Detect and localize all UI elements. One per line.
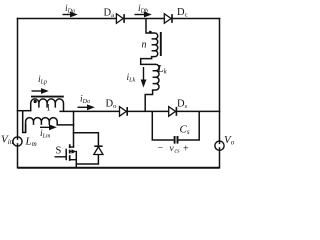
dot secondary polarity (149, 31, 152, 34)
svg-text:iLm: iLm (40, 129, 51, 140)
wire right rail upper (219, 19, 221, 142)
winding n (secondary) (141, 19, 159, 112)
wire primary left connector (18, 110, 31, 112)
wire bottom rail (18, 167, 220, 169)
drain stub (70, 146, 74, 148)
transistor S (MOSFET) (55, 144, 77, 161)
svg-text:iDo: iDo (80, 95, 90, 106)
wire drain vertical (73, 111, 75, 147)
gate lead (55, 156, 67, 158)
svg-text:iDa: iDa (65, 4, 75, 15)
svg-text:1: 1 (46, 103, 51, 113)
arrow iDb (135, 12, 152, 18)
arrow iLm (40, 124, 57, 130)
arrow iDo (78, 104, 95, 110)
svg-text:Dc: Dc (177, 7, 188, 19)
wire right rail lower (219, 150, 221, 167)
capacitor Cs plates (175, 136, 178, 144)
svg-text:Da: Da (104, 8, 115, 20)
wire body-diode bottom branch (76, 155, 98, 164)
core bar secondary (160, 32, 162, 56)
svg-text:iDb: iDb (138, 4, 148, 15)
svg-text:n: n (142, 40, 147, 51)
wire body-diode top branch (74, 133, 99, 147)
svg-text:iLp: iLp (38, 75, 47, 86)
coupled inductor core bar (primary) (31, 96, 64, 98)
svg-text:Ds: Ds (177, 99, 188, 111)
channel segments (69, 144, 71, 161)
svg-text:Vin: Vin (1, 134, 14, 147)
arrow iDa (63, 12, 78, 18)
winding Lm (bottom) (26, 118, 58, 133)
arrow iLp (32, 88, 49, 94)
diode Ds (169, 107, 177, 117)
svg-text:Lm: Lm (25, 136, 37, 149)
svg-text:cs: cs (175, 149, 181, 155)
svg-text:Vo: Vo (224, 134, 235, 147)
arrow iLk (141, 67, 147, 88)
source stub (70, 159, 76, 161)
source Vo (215, 141, 224, 150)
svg-text:−: − (158, 143, 164, 154)
wire middle row (Do/Ds row) (60, 110, 219, 112)
wire source drop (75, 152, 77, 168)
winding primary 1 (top) (31, 99, 64, 112)
body diode (94, 146, 103, 154)
svg-text:Cs: Cs (180, 124, 190, 137)
wire left rail lower (17, 146, 19, 168)
wire Lm left hook (23, 111, 26, 133)
diode Do (120, 107, 128, 117)
svg-text:+: + (183, 144, 189, 155)
capacitor Cs loop left (152, 111, 174, 140)
capacitor Cs loop right (178, 111, 199, 140)
wire left rail upper (17, 19, 19, 137)
diode Dc (164, 14, 172, 24)
svg-text:Do: Do (106, 99, 117, 111)
diode Da (116, 14, 124, 24)
arrow mosfet body (72, 149, 77, 154)
svg-text:iLk: iLk (127, 73, 136, 84)
wire Lm right connector (57, 124, 73, 126)
dot primary polarity (34, 100, 37, 103)
svg-text:Lk: Lk (157, 63, 168, 76)
svg-text:S: S (56, 146, 62, 157)
body stub (70, 151, 73, 153)
wire top rail (18, 18, 220, 20)
gate bar (65, 149, 67, 161)
source Vin (13, 137, 22, 146)
